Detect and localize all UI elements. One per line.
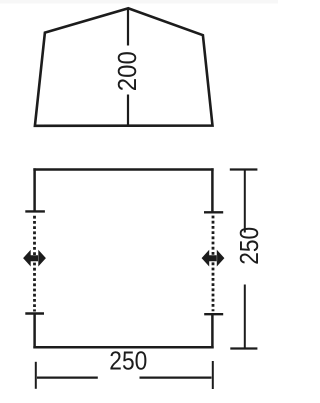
width dimension right extension line [212, 361, 214, 389]
plan right wall upper segment [211, 168, 214, 212]
svg-text:250: 250 [236, 227, 264, 265]
plan left wall upper segment [33, 168, 36, 211]
height dimension line lower segment [127, 95, 129, 126]
plan left wall upper tick [25, 210, 45, 212]
svg-text:200: 200 [114, 51, 142, 91]
plan right wall dotted opening [212, 216, 215, 312]
height dimension line upper segment [127, 10, 129, 46]
plan left wall dotted opening [33, 216, 36, 312]
depth dimension line upper segment [244, 170, 246, 233]
plan left door double arrow [23, 250, 46, 267]
width dimension line right segment [140, 377, 212, 379]
plan right wall lower tick [204, 313, 223, 315]
plan top wall [33, 168, 213, 171]
plan bottom wall [33, 346, 213, 349]
depth dimension bottom bar [230, 347, 257, 349]
svg-text:250: 250 [109, 348, 147, 376]
plan left wall lower tick [25, 312, 44, 314]
width dimension line left segment [37, 377, 98, 379]
width dimension left extension line [35, 362, 37, 389]
plan left wall lower segment [33, 314, 36, 349]
depth dimension top bar [230, 168, 258, 170]
plan right door double arrow [202, 250, 225, 267]
plan right wall upper tick [204, 211, 223, 213]
plan right wall lower segment [211, 314, 214, 348]
tent elevation outline [35, 8, 213, 126]
depth dimension line lower segment [244, 285, 246, 349]
